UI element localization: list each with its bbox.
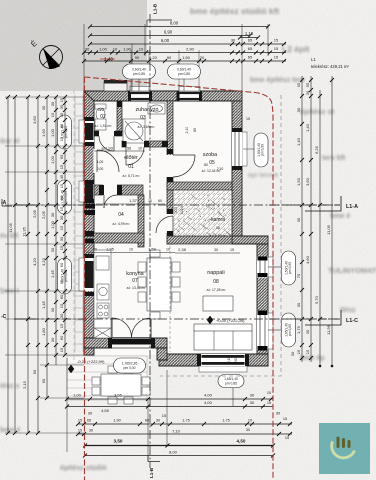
red property line: diagonal + right vertical [85,77,274,480]
svg-text:építész st: építész st [300,107,335,116]
svg-text:65: 65 [248,38,253,43]
terrace decking below kitchen [67,356,147,400]
svg-text:65: 65 [248,55,253,60]
wc toilet [95,104,106,109]
svg-text:1,90: 1,90 [41,128,46,137]
window stadium labels [138,79,140,91]
svg-text:30,5: 30,5 [174,207,178,213]
svg-text:1,50: 1,50 [182,55,191,60]
svg-text:10: 10 [166,248,170,252]
window left wall: wc [79,120,84,143]
exterior wall: right upper (szoba) [232,101,242,236]
svg-text:zuhanyzó: zuhanyzó [135,107,158,113]
svg-text:L1-C: L1-C [346,318,358,324]
svg-text:ász st: ász st [0,138,20,145]
svg-text:15: 15 [59,183,64,188]
svg-text:15: 15 [59,245,64,250]
svg-text:30: 30 [50,337,55,342]
svg-text:15: 15 [274,46,279,51]
svg-text:építész stúdió: építész stúdió [60,465,107,472]
svg-text:30: 30 [88,411,93,416]
svg-text:-C: -C [1,314,7,320]
svg-text:1,00: 1,00 [99,47,108,52]
interior walls [84,101,232,247]
elevation markers [68,316,245,373]
svg-text:60: 60 [32,369,37,374]
svg-text:5,70: 5,70 [314,295,319,304]
svg-text:6,25: 6,25 [314,145,319,154]
svg-text:30: 30 [156,419,160,423]
svg-text:08: 08 [213,279,219,285]
svg-text:1,45: 1,45 [50,269,55,278]
svg-text:10: 10 [113,47,118,52]
dining table [147,258,171,311]
svg-text:terv kft: terv kft [322,155,346,162]
windows: top wall W1 [79,87,281,373]
svg-text:30: 30 [59,313,64,318]
terrace table [101,374,141,396]
right dimension chains [301,76,303,362]
window right wall: nappali lower [268,313,273,349]
svg-text:L2 épít: L2 épít [282,44,310,54]
top dimension chains [83,24,85,91]
section line L1-C [14,318,340,320]
svg-text:2,00: 2,00 [97,167,104,171]
svg-text:30: 30 [85,47,90,52]
svg-text:szoba: szoba [203,152,217,158]
svg-text:2,10: 2,10 [185,127,189,134]
window right wall: szoba [242,132,247,166]
windows: top wall W2 [179,87,200,92]
pavement strip left of building [75,95,83,352]
svg-text:1,10: 1,10 [245,31,254,36]
svg-text:15: 15 [59,206,64,211]
wall step szoba->nappali [232,236,268,244]
svg-text:30: 30 [59,215,64,220]
left dimension chains [7,97,9,433]
svg-text:L1-B: L1-B [153,3,158,14]
svg-text:20: 20 [200,55,205,60]
svg-text:8,00: 8,00 [170,21,179,26]
section line L1-A [14,204,340,206]
svg-text:90: 90 [234,358,238,362]
svg-text:-0,20 (+222,99): -0,20 (+222,99) [77,359,105,364]
svg-text:1,00: 1,00 [50,155,55,164]
svg-text:30: 30 [305,90,310,95]
svg-text:90: 90 [135,55,140,60]
svg-text:15: 15 [285,436,289,440]
konyha/nappali open boundary dashed [169,246,171,352]
svg-text:pm 0,90: pm 0,90 [288,262,292,274]
sofa [194,330,252,350]
kamra bottom wall [167,236,232,244]
svg-text:15: 15 [274,55,279,60]
svg-text:4,20: 4,20 [41,257,46,266]
svg-text:L1: L1 [311,57,316,62]
svg-text:4,50: 4,50 [237,439,246,444]
svg-text:30: 30 [305,329,310,334]
section line L1-B vertical [149,14,151,468]
svg-text:60: 60 [59,335,64,340]
svg-text:30: 30 [276,411,281,416]
svg-text:1,50: 1,50 [296,177,301,186]
svg-text:év kft: év kft [0,233,19,240]
svg-text:30: 30 [296,107,301,112]
svg-text:kamra: kamra [211,217,225,223]
svg-text:ítész: ítész [340,307,356,314]
window right wall: nappali upper [268,257,273,277]
svg-text:20: 20 [93,248,97,252]
svg-text:15: 15 [162,413,167,418]
svg-text:a.i: 5,71 m²: a.i: 5,71 m² [123,174,141,178]
svg-text:15: 15 [283,417,287,421]
svg-text:telekrész: 429,21 m²: telekrész: 429,21 m² [311,64,350,69]
svg-text:2,05: 2,05 [32,209,37,218]
svg-text:a.i: 17,28 m²: a.i: 17,28 m² [207,288,227,292]
fixtures: shower [92,103,252,404]
zuh sink [148,103,165,114]
svg-text:bme é: bme é [330,213,350,220]
svg-text:30: 30 [214,248,218,252]
svg-text:15: 15 [296,349,301,354]
svg-text:30: 30 [89,429,93,433]
svg-text:a.i: 4,99 m²: a.i: 4,99 m² [113,222,131,226]
svg-text:1,00: 1,00 [97,160,104,164]
svg-text:11,05: 11,05 [326,224,331,234]
svg-text:konyha: konyha [126,271,143,277]
svg-text:10: 10 [138,147,142,151]
eaves dashed outline right+bottom [160,95,281,376]
svg-text:7,10: 7,10 [172,429,181,434]
svg-text:-A: -A [1,200,7,206]
svg-text:1,75: 1,75 [296,325,301,334]
interior floor (white) [84,91,242,244]
svg-text:4,60: 4,60 [305,255,310,264]
exterior wall: right lower (nappali) [257,244,268,366]
svg-text:30: 30 [50,247,55,252]
svg-text:bme építész stúdió kft: bme építész stúdió kft [190,6,279,16]
svg-text:60: 60 [158,199,162,203]
svg-text:60: 60 [59,262,64,267]
svg-text:1,45: 1,45 [41,300,46,309]
svg-text:1,40: 1,40 [296,137,301,146]
svg-text:65: 65 [87,419,91,423]
terrace door bottom nappali [199,366,247,372]
svg-text:15: 15 [59,279,64,284]
svg-text:1,00: 1,00 [73,393,82,398]
svg-text:1,20: 1,20 [149,55,158,60]
logo plate [319,423,370,474]
svg-text:3,60: 3,60 [305,177,310,186]
coffee table [203,296,233,311]
svg-text:előtér: előtér [124,155,138,161]
svg-text:1,75: 1,75 [182,419,189,423]
svg-text:15: 15 [78,419,82,423]
svg-text:30: 30 [231,38,236,43]
svg-text:TULINYOMAT: TULINYOMAT [328,266,376,275]
svg-text:30: 30 [296,302,301,307]
exterior wall: bottom nappali [159,354,268,366]
svg-text:2,05: 2,05 [41,210,46,219]
exterior wall: top [84,91,268,366]
svg-text:15: 15 [59,136,64,141]
window left wall: konyha [79,258,84,291]
svg-text:85: 85 [193,128,197,132]
svg-text:bme t: bme t [0,288,19,295]
svg-text:55: 55 [305,82,310,87]
svg-text:60: 60 [145,419,149,423]
svg-text:nappali: nappali [207,270,224,276]
svg-text:L1-B: L1-B [149,467,154,478]
svg-text:2,90: 2,90 [186,47,195,52]
svg-text:30: 30 [41,105,46,110]
svg-text:15: 15 [59,164,64,169]
svg-text:a.i: 13,46 m²: a.i: 13,46 m² [127,286,147,290]
svg-text:45: 45 [59,174,64,179]
svg-text:15: 15 [267,391,271,395]
exterior wall: left [84,91,94,355]
svg-text:101,5: 101,5 [180,206,184,214]
svg-text:pm 0,00: pm 0,00 [124,366,136,370]
svg-text:8,00: 8,00 [169,450,178,455]
svg-text:15: 15 [59,225,64,230]
svg-text:1,75: 1,75 [222,419,229,423]
svg-text:55: 55 [296,82,301,87]
svg-text:1,40: 1,40 [305,123,310,132]
svg-text:15: 15 [59,112,64,117]
svg-text:4,20: 4,20 [32,257,37,266]
window left wall: room04 [79,181,84,202]
svg-text:a.i: 3,69 m²: a.i: 3,69 m² [138,125,156,129]
svg-text:06: 06 [216,226,220,230]
chimney block left wall [84,204,95,209]
svg-text:11,35: 11,35 [22,226,27,236]
black jamb blocks [84,92,249,366]
svg-text:15: 15 [59,97,64,102]
svg-text:15: 15 [230,248,234,252]
svg-text:10: 10 [248,419,252,423]
door arcs [97,136,195,233]
svg-text:15: 15 [267,401,271,405]
svg-text:30: 30 [59,236,64,241]
svg-text:15: 15 [246,117,250,121]
zuh wash machine [95,119,106,130]
svg-text:15: 15 [305,349,310,354]
svg-text:05: 05 [209,160,215,166]
svg-text:1,90: 1,90 [123,47,132,52]
svg-text:pm 0,85: pm 0,85 [133,72,145,76]
svg-text:80: 80 [204,163,208,167]
svg-text:60: 60 [59,154,64,159]
svg-text:30: 30 [250,393,255,398]
svg-text:60: 60 [41,378,46,383]
svg-text:4,55: 4,55 [101,408,110,413]
svg-text:4,00: 4,00 [204,400,213,405]
svg-text:11,05: 11,05 [8,222,13,232]
svg-text:10: 10 [139,47,144,52]
svg-text:1,00: 1,00 [50,220,55,229]
svg-text:30: 30 [250,400,255,405]
konyha counter [94,250,111,328]
svg-text:6,00: 6,00 [161,38,170,43]
entry canopy above top wall [104,81,127,91]
svg-text:1,80: 1,80 [41,327,46,336]
svg-text:1,00: 1,00 [50,128,55,137]
svg-text:04: 04 [118,212,124,218]
bottom dimension chains [66,358,68,452]
svg-text:pm 0,85: pm 0,85 [178,72,190,76]
exterior wall: bottom konyha [84,338,167,348]
svg-text:pm 0,90: pm 0,90 [261,144,265,156]
svg-text:10: 10 [129,248,133,252]
svg-text:58: 58 [127,147,131,151]
svg-text:30: 30 [50,101,55,106]
svg-text:6,90: 6,90 [164,30,173,35]
svg-text:30: 30 [246,428,250,432]
svg-text:1,95: 1,95 [106,247,115,252]
red property line: left vertical [84,77,86,480]
konyha terrace double door [112,338,151,349]
svg-text:01: 01 [128,164,134,170]
svg-text:70: 70 [296,273,301,278]
svg-text:30: 30 [296,217,301,222]
svg-text:4,00: 4,00 [204,393,213,398]
svg-text:15: 15 [59,303,64,308]
svg-text:2,15: 2,15 [227,357,231,363]
svg-text:1,90: 1,90 [113,419,120,423]
svg-text:30: 30 [50,212,55,217]
svg-text:30: 30 [59,104,64,109]
grey textured ground block top-left [0,0,147,91]
svg-text:11,95: 11,95 [326,324,331,334]
svg-text:30: 30 [290,351,295,356]
svg-text:07: 07 [132,278,138,284]
door openings (white gaps) [94,131,174,234]
svg-text:60: 60 [59,195,64,200]
svg-text:tész s: tész s [0,383,20,390]
svg-text:a.i: 1,51 m²: a.i: 1,51 m² [95,124,113,128]
svg-text:wc: wc [98,107,105,113]
svg-text:15: 15 [274,38,279,43]
svg-text:2,15: 2,15 [22,380,27,389]
svg-text:02: 02 [100,114,106,120]
svg-text:3,50: 3,50 [114,439,123,444]
svg-text:15: 15 [59,347,64,352]
svg-text:1,37: 1,37 [129,198,138,203]
svg-text:pm 0,85: pm 0,85 [225,381,237,385]
svg-text:90: 90 [167,55,172,60]
svg-text:65: 65 [248,46,253,51]
svg-text:60: 60 [59,123,64,128]
svg-text:15: 15 [78,429,82,433]
svg-text:3,55: 3,55 [114,393,123,398]
svg-text:03: 03 [140,115,146,121]
svg-text:30: 30 [50,307,55,312]
svg-text:pm 0,85: pm 0,85 [288,324,292,336]
north arrow [29,39,62,69]
svg-text:60: 60 [59,294,64,299]
svg-text:10: 10 [50,112,55,117]
svg-text:L1-A: L1-A [346,204,358,210]
svg-text:15: 15 [59,323,64,328]
svg-text:40: 40 [101,147,105,151]
svg-text:1,93: 1,93 [105,146,114,151]
kamra shelving marks [173,190,232,236]
svg-text:1,59: 1,59 [148,247,157,252]
svg-text:2,38: 2,38 [178,247,187,252]
svg-text:2,10: 2,10 [217,167,224,171]
room labels [95,107,228,292]
svg-text:3,60: 3,60 [32,115,37,124]
